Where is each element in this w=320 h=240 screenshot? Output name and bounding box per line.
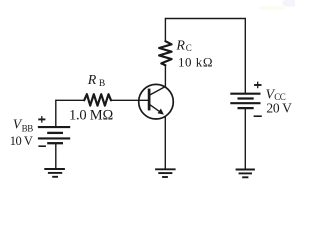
wire base: from left corner through RB to base bar	[56, 99, 85, 101]
transistor base bar	[148, 89, 151, 111]
wire collector branch: top to RC	[164, 18, 166, 42]
wire right vertical: battery to ground	[244, 108, 246, 169]
resistor RB 1.0M	[84, 94, 111, 105]
svg-text:R: R	[87, 73, 97, 88]
battery VBB	[38, 127, 70, 143]
wire left vertical down to battery	[55, 100, 57, 127]
wire RB to base	[111, 99, 148, 101]
wire top: collector branch to Vcc branch	[165, 18, 245, 20]
resistor RC 10k	[159, 41, 172, 65]
plus sign VBB	[38, 116, 45, 123]
ground middle	[155, 169, 176, 177]
battery VCC	[230, 94, 260, 108]
transistor Q1 circle	[139, 84, 174, 119]
wire battery to ground left	[55, 143, 57, 169]
svg-text:1.0 MΩ: 1.0 MΩ	[69, 108, 113, 124]
transistor collector lead	[150, 86, 166, 95]
ground right	[236, 170, 255, 178]
minus sign VCC	[254, 115, 262, 117]
svg-text:B: B	[99, 79, 105, 89]
svg-text:20 V: 20 V	[266, 100, 292, 115]
svg-text:10 kΩ: 10 kΩ	[178, 54, 213, 69]
svg-text:10 V: 10 V	[10, 134, 33, 148]
wire right vertical: top to battery	[244, 18, 246, 94]
wire emitter to ground	[164, 116, 166, 169]
minus sign VBB	[38, 145, 46, 147]
smudge artifact top-right	[258, 0, 298, 11]
svg-text:BB: BB	[22, 123, 34, 133]
plus sign VCC	[254, 82, 261, 89]
svg-text:R: R	[175, 39, 185, 54]
emitter arrowhead	[158, 109, 164, 115]
svg-text:C: C	[186, 43, 192, 53]
wire RC to transistor collector	[164, 65, 166, 87]
ground left	[44, 169, 65, 177]
transistor emitter lead	[150, 104, 163, 113]
